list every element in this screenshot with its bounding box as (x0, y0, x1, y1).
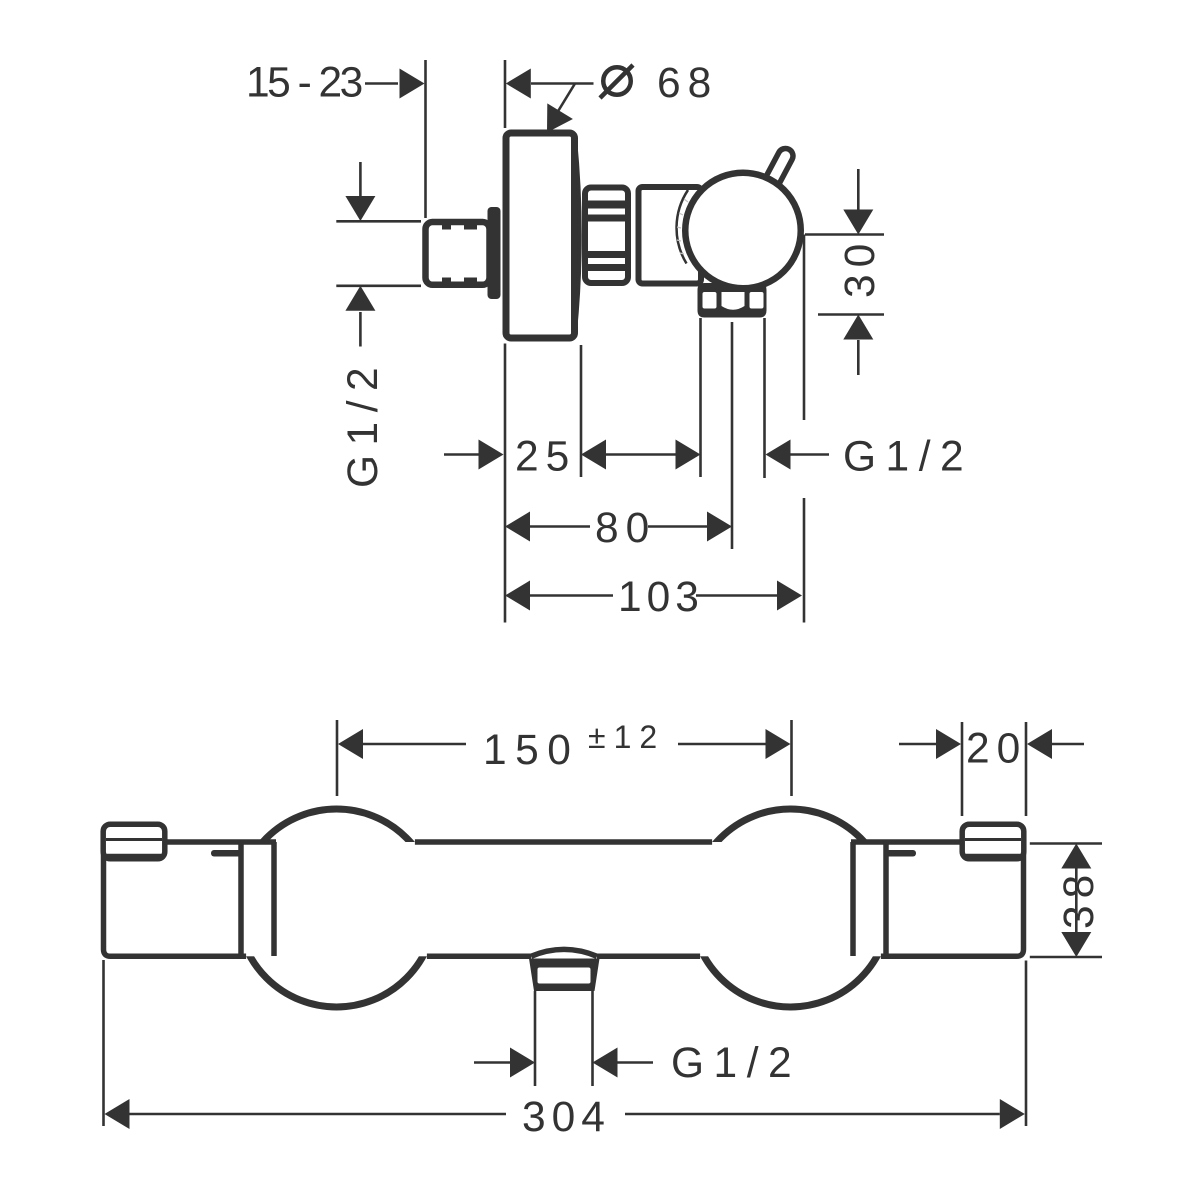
extension line bar bottom (1030, 956, 1102, 959)
handle back plate arc (677, 190, 688, 264)
extension line handle axis (805, 233, 884, 236)
dim 304 shaft right (625, 1113, 1000, 1116)
extension line bar left end (102, 960, 105, 1126)
dim 304 shaft left (130, 1113, 507, 1116)
right escutcheon circle (692, 809, 890, 1007)
arrow 30 up (843, 315, 873, 340)
arrow 25 right outside (581, 440, 606, 470)
arrow 103 left (505, 581, 530, 611)
arrow G1/2 bottom right outside (593, 1048, 618, 1078)
extension line cap right (1025, 722, 1028, 816)
arrow 304 left (105, 1099, 130, 1129)
extension line flange face upper (504, 60, 507, 128)
marker tab left (211, 850, 244, 857)
union edge right outer (883, 842, 889, 956)
extension line union top (336, 220, 421, 223)
knurl texture (677, 199, 688, 254)
arrow G1/2 down (345, 196, 375, 221)
dim G1/2 vertical shaft lower (359, 312, 362, 347)
arrow 80 right (707, 512, 732, 542)
left cap inner line upper (106, 838, 162, 841)
valve body (639, 187, 702, 284)
arrow G1/2 bottom left outside (510, 1048, 535, 1078)
dim 150 shaft left (362, 743, 466, 746)
bar outline right (851, 842, 1024, 956)
arrow G1/2 right label (766, 440, 791, 470)
left escutcheon circle (238, 809, 436, 1007)
dim 30 shaft upper (857, 169, 860, 210)
right cap inner line upper (965, 838, 1021, 841)
extension line outlet left (699, 318, 702, 477)
union edge right inner (850, 842, 856, 956)
arrow 150 right (766, 729, 791, 759)
bar interior mask (100, 842, 1027, 956)
temperature handle lever (763, 146, 795, 189)
dim G1/2 vertical shaft upper (359, 162, 362, 196)
swivel nut with ribs (585, 188, 628, 284)
svg-text:68: 68 (657, 60, 718, 107)
extension line right circle center (790, 720, 793, 796)
dim G1/2 bottom shaft right (618, 1061, 654, 1064)
bar outline bottom left-middle (427, 954, 531, 960)
arrow 38 up (1061, 844, 1091, 869)
dim 103 shaft right (696, 594, 778, 597)
svg-text:15 - 23: 15 - 23 (246, 60, 362, 107)
extension line flange face lower (504, 344, 507, 623)
dim 20 shaft right (1051, 743, 1084, 746)
left cap inner line lower (106, 854, 162, 857)
svg-text:G1/2: G1/2 (340, 358, 387, 488)
bottom outlet hex (698, 283, 767, 318)
right cap inner line lower (965, 854, 1021, 857)
extension line handle right upper (803, 235, 806, 421)
arrow 103 right (777, 581, 802, 611)
arrow 20 right outside (1027, 729, 1052, 759)
extension line union bottom (336, 284, 421, 287)
leader line diameter 68 (549, 84, 575, 127)
right end cap (962, 824, 1024, 859)
dim G1/2 right shaft (790, 453, 829, 456)
wall flange disc (side view) (506, 133, 575, 338)
outlet stub window (538, 968, 591, 984)
svg-text:25: 25 (515, 434, 576, 481)
arrow 15-23 left-facing (506, 69, 531, 99)
svg-text:38: 38 (1056, 868, 1103, 929)
svg-text:103: 103 (618, 574, 704, 621)
outlet boss arc (531, 949, 597, 956)
extension line outlet axis (818, 313, 884, 316)
dim 80 shaft right (648, 525, 708, 528)
bar outline left (104, 842, 277, 956)
dim 15-23 shaft left (365, 82, 398, 85)
temperature handle ring (685, 173, 801, 289)
dim 150 shaft right (678, 743, 767, 746)
union collar ring (488, 207, 501, 299)
extension line bar right end (1025, 961, 1028, 1127)
bar outline bottom right-middle (597, 954, 700, 960)
svg-text:±12: ±12 (588, 719, 665, 755)
dim 25 shaft middle (605, 453, 676, 456)
dim 15-23 shaft right (531, 82, 594, 85)
arrow 20 left outside (936, 729, 961, 759)
extension line handle right lower (803, 498, 806, 623)
marker tab right (884, 850, 917, 857)
dim 80 shaft left (529, 525, 590, 528)
arrow 15-23 right (400, 69, 425, 99)
arrow diameter 68 leader (547, 103, 573, 132)
arrow G1/2 up (345, 286, 375, 311)
svg-text:G1/2: G1/2 (843, 434, 973, 481)
svg-text:20: 20 (966, 726, 1027, 773)
extension line outlet center (731, 322, 734, 549)
dim 20 shaft left (899, 743, 937, 746)
dim 25 shaft left (444, 453, 479, 456)
dim 103 shaft left (529, 594, 613, 597)
arrow outlet left outside (676, 440, 701, 470)
dim 30 shaft lower (857, 340, 860, 375)
arrow 304 right (1000, 1099, 1025, 1129)
arrow 150 left (338, 729, 363, 759)
extension line left circle center (336, 720, 339, 796)
dim 38 shaft (1075, 869, 1078, 933)
extension line bar top (1030, 842, 1102, 845)
svg-text:304: 304 (522, 1094, 611, 1141)
union edge left outer (238, 842, 244, 956)
svg-text:150: 150 (483, 727, 579, 774)
arrow 80 left (505, 512, 530, 542)
arrow 30 down (843, 210, 873, 235)
flange rim arc (575, 139, 580, 332)
extension line stub right (591, 991, 594, 1086)
union edge left inner (271, 842, 277, 956)
bar outline top middle (415, 839, 712, 845)
extension line union left face (424, 60, 427, 218)
arrow 38 down (1061, 932, 1091, 957)
arrow 25 left outside (479, 440, 504, 470)
dim G1/2 bottom shaft left (474, 1061, 510, 1064)
extension line flange back (580, 345, 583, 477)
left end cap (103, 824, 165, 859)
svg-text:30: 30 (837, 237, 884, 298)
extension line stub left (534, 991, 537, 1086)
outlet stub (529, 959, 600, 992)
svg-text:G1/2: G1/2 (671, 1040, 801, 1087)
diameter symbol (600, 65, 633, 98)
extension line cap left (961, 722, 964, 816)
wall union nut (square, side view) (426, 222, 490, 285)
extension line outlet right (763, 318, 766, 478)
svg-text:80: 80 (595, 505, 656, 552)
